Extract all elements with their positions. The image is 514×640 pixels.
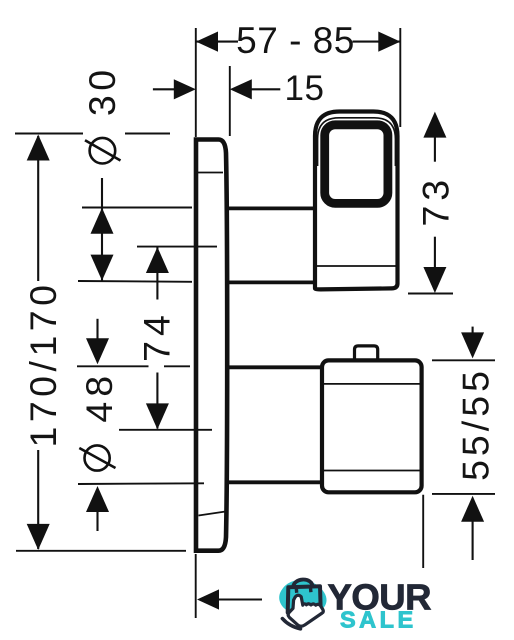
dim diameter 48: upper leader line xyxy=(96,319,98,345)
dim 73: bottom extension line xyxy=(408,293,453,295)
dim diameter 30: top extension line xyxy=(82,207,192,209)
dim 170/170: bottom extension line xyxy=(16,550,186,552)
lower stem top line xyxy=(227,365,323,369)
dim 55/55: upper leader line xyxy=(472,327,474,340)
volume handle top tab xyxy=(355,346,378,359)
bottom dim: left vertical helper line xyxy=(195,554,197,618)
dim 55/55: down arrow (above top line) xyxy=(461,332,484,358)
dim 73: up arrow xyxy=(423,112,446,138)
volume handle lower band line xyxy=(322,470,422,472)
dim diameter 48: down arrow (above top line) xyxy=(86,338,109,364)
dim 170/170: upper line segment xyxy=(37,136,39,281)
dim diameter 48: top extension line segment b xyxy=(164,365,190,367)
dim 57-85: left arrow xyxy=(196,32,218,52)
upper stem top line xyxy=(227,206,314,210)
dim 170/170: down arrow xyxy=(27,524,50,550)
dim 73: down arrow xyxy=(423,267,446,293)
svg-text:170/170: 170/170 xyxy=(22,280,64,447)
dim diameter 30: down arrow xyxy=(91,255,114,281)
logo: bag handle stubs xyxy=(296,587,311,593)
dim 74: top extension line xyxy=(137,246,217,248)
dim 74: lower line segment xyxy=(156,373,158,429)
svg-text:57 - 85: 57 - 85 xyxy=(236,20,355,61)
dim 73: upper line segment xyxy=(434,132,436,162)
dim diameter 48: lower leader line xyxy=(96,510,98,531)
dim diameter 48: up arrow (below bottom line) xyxy=(86,486,109,512)
logo: hand pointer xyxy=(288,595,323,626)
dim 57-85: line left segment xyxy=(196,41,238,43)
svg-text:74: 74 xyxy=(136,310,178,362)
dim 15: left tail line xyxy=(153,88,176,90)
dim 57-85: left extension line xyxy=(195,28,197,137)
svg-text:48: 48 xyxy=(78,371,120,423)
logo: shopping bag handle xyxy=(293,580,312,589)
svg-text:30: 30 xyxy=(81,65,123,116)
thermostat handle outer shell xyxy=(315,112,398,290)
dim 74: down arrow xyxy=(146,403,169,429)
dim 15: right extension line xyxy=(229,66,231,136)
dim 55/55: top extension line xyxy=(432,359,495,361)
logo: shopping bag body xyxy=(288,586,321,612)
dim diameter 30: vertical line xyxy=(101,178,103,281)
logo: swoosh stroke xyxy=(282,619,300,629)
volume handle body xyxy=(322,360,422,492)
dim 74: up arrow xyxy=(146,247,169,273)
svg-text:SALE: SALE xyxy=(340,607,417,633)
dim 55/55: lower leader line xyxy=(472,519,474,560)
dim 170/170: top extension line segment a xyxy=(15,133,83,135)
dim 15: left arrow (pointing right) xyxy=(174,79,196,99)
dim 15: right arrow (pointing left) xyxy=(230,79,252,99)
dim diameter 30: diameter symbol xyxy=(85,138,121,164)
logo: teal blob xyxy=(279,580,326,615)
dim 55/55: bottom extension line xyxy=(432,493,495,495)
plate upper seam xyxy=(198,172,224,174)
volume handle upper band line xyxy=(322,383,422,385)
dim diameter 48: bottom extension line xyxy=(78,482,204,485)
bottom dim: right vertical helper line xyxy=(422,495,424,568)
dim 57-85: right extension line xyxy=(399,28,401,127)
bottom dim: tail line xyxy=(218,598,262,600)
dim 170/170: top extension line segment b xyxy=(125,133,170,135)
svg-text:73: 73 xyxy=(415,175,457,227)
dim diameter 48: top extension line segment a xyxy=(77,365,149,367)
plate lower seam xyxy=(199,512,226,516)
dim 170/170: lower line segment xyxy=(37,450,39,549)
dim 57-85: line right segment xyxy=(353,41,401,43)
upper stem bottom line xyxy=(227,280,314,284)
svg-text:15: 15 xyxy=(285,69,325,108)
thermostat handle bottom seam xyxy=(316,265,398,267)
dim 57-85: right arrow xyxy=(378,32,400,52)
dim diameter 30: up arrow xyxy=(91,208,114,234)
svg-text:55/55: 55/55 xyxy=(455,367,497,481)
dim diameter 48: diameter symbol xyxy=(79,445,115,470)
lower stem bottom line xyxy=(227,480,323,484)
dim diameter 30: bottom extension line xyxy=(78,280,192,283)
dim 74: bottom extension line xyxy=(119,429,212,431)
thermostat handle inner contour line xyxy=(318,118,396,166)
bottom dim: left arrow (pointing left) xyxy=(197,589,219,609)
wall plate (escutcheon, side view) xyxy=(196,140,227,551)
dim 73: lower line segment xyxy=(434,237,436,272)
dim 74: upper line segment xyxy=(156,247,158,300)
thermostat handle ring (opening) xyxy=(325,125,388,204)
dim 15: right tail line xyxy=(251,88,280,90)
dim 170/170: up arrow xyxy=(27,135,50,161)
dim 55/55: up arrow (below bottom line) xyxy=(461,496,484,522)
